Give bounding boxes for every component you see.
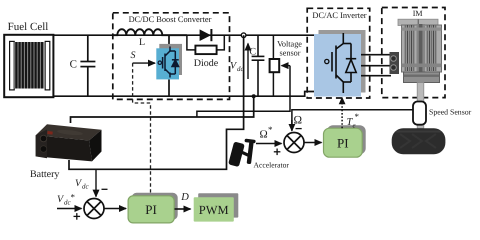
PWM block shadow [198,193,238,217]
svg-text:*: * [268,125,273,135]
IGBT Q1 shadow [159,44,182,75]
svg-text:PI: PI [337,136,349,151]
arrow sum to PI top [304,142,321,144]
svg-text:*: * [71,192,76,202]
DC/DC boost converter dashed box [113,13,230,100]
svg-text:Fuel Cell: Fuel Cell [8,21,49,33]
wheel tire [392,128,446,154]
label plus bottom sum [74,213,81,220]
svg-text:e: e [353,122,356,130]
arrow Vdc star input [57,208,82,210]
label minus top sum [296,128,302,130]
wire bottom DC bus [53,92,314,97]
PI controller bottom shadow [132,193,178,220]
capacitor C1 [80,35,95,96]
svg-text:Speed Sensor: Speed Sensor [429,108,472,117]
svg-text:C: C [249,47,256,58]
arrow PI to PWM [175,208,191,210]
label minus bottom sum [102,188,108,190]
wire S gate arrow [133,62,155,64]
label plus top sum [274,149,281,156]
motor photo [390,19,442,82]
wire speed feedback omega [292,110,413,131]
inverter IGBT shadow [319,30,366,93]
voltage sensor box [270,59,280,72]
wire top DC bus [53,34,314,36]
IM dashed box [382,8,445,98]
svg-text:Voltage: Voltage [277,40,302,49]
svg-text:Ω: Ω [260,129,268,141]
PWM block [194,197,234,221]
svg-text:DC/DC Boost Converter: DC/DC Boost Converter [129,15,212,24]
node battery junction dot [252,94,256,98]
accelerator pedal photo [228,139,256,167]
wire IGBT emitter drop [168,79,170,96]
svg-text:D: D [180,192,189,203]
capacitor C2 [252,35,265,96]
inverter IGBT body [314,34,361,97]
svg-text:C: C [70,59,77,71]
inverter IGBT symbol [325,33,357,93]
wire 3-phase a [361,54,391,56]
svg-text:S: S [131,50,136,61]
svg-text:sensor: sensor [280,49,301,58]
svg-text:DC/AC Inverter: DC/AC Inverter [312,11,366,20]
svg-text:PI: PI [145,202,157,217]
wire S dashed control path [133,63,151,192]
wire Vdc feedback: sensor right, down, left, down to battery wire [197,66,290,117]
voltage sensor legs [272,35,274,59]
arrow Vdc measure up [247,44,249,80]
wire Vdc tap drop arrow [95,169,97,196]
DC/AC inverter dashed box [307,8,370,98]
wire battery plus horizontal [71,96,254,123]
svg-text:PWM: PWM [199,203,229,217]
svg-text:Diode: Diode [194,58,219,69]
wire Te dotted [341,102,343,128]
svg-text:Ω: Ω [294,115,303,127]
PI controller bottom [128,196,174,223]
svg-text:IM: IM [413,9,423,18]
summing junction bottom [84,199,104,219]
wire diode rect right [217,35,225,50]
IGBT Q1 body [156,48,179,79]
svg-text:L: L [139,37,145,48]
svg-text:Accelerator: Accelerator [254,161,290,170]
wire diode rect left [187,35,196,50]
wire 3-phase c [361,75,391,77]
motor shaft [417,83,424,129]
PI controller top shadow [327,125,366,154]
diode D1 [200,29,212,41]
speed sensor box [413,102,426,125]
wire IGBT collector drop [168,35,170,48]
diode snubber rect [195,46,216,55]
svg-text:*: * [355,112,360,122]
IGBT Q1 symbol [158,47,179,78]
arrow accelerator to sum [256,143,282,145]
node bus junction circle [241,33,246,38]
svg-text:Battery: Battery [30,169,59,180]
wire node drop staircase to battery minus [69,35,244,169]
summing junction top [284,133,304,153]
inductor L [114,29,187,35]
svg-text:dc: dc [82,183,90,191]
PI controller top [324,128,363,157]
fuel cell stack box [4,35,53,97]
wire 3-phase b [361,65,391,67]
arrow sum to PI [104,208,126,210]
wire sensor output arrow [282,65,291,67]
battery photo [36,124,102,161]
